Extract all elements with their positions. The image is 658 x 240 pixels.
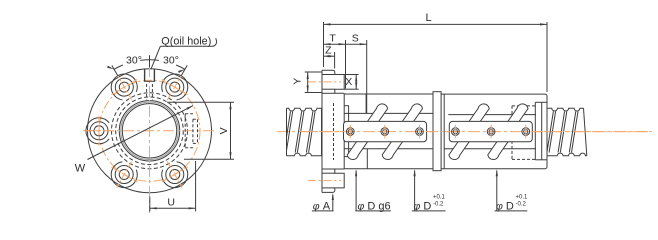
screw shaft thread left of nut bbox=[287, 108, 322, 156]
clamp screw screw 6 bbox=[522, 128, 530, 136]
svg-text:U: U bbox=[167, 196, 175, 208]
orange centerline over plates bbox=[300, 131, 652, 133]
clamp screw screw 5 bbox=[487, 128, 495, 136]
dimension L bbox=[323, 22, 325, 67]
dimension Z bbox=[334, 52, 336, 69]
svg-text:+0.1: +0.1 bbox=[433, 194, 446, 200]
ball return tube 3 (upper) bbox=[467, 104, 490, 125]
dimension V (vertical, right of flange) bbox=[167, 101, 234, 103]
dimension Y bbox=[305, 71, 322, 73]
front view: hidden circle (pilot boss) bbox=[112, 93, 188, 169]
nut body outline left half bbox=[344, 94, 433, 169]
svg-text:L: L bbox=[425, 12, 431, 24]
ball return tube 1 (upper) bbox=[365, 104, 388, 125]
front view: hidden circle (ball track) bbox=[116, 97, 184, 165]
ball return tube 2 (lower) bbox=[382, 138, 405, 160]
tube clamp plate right nut bbox=[449, 121, 532, 141]
clamp screw screw 2 bbox=[381, 128, 389, 136]
front view: flange outer circle bbox=[88, 69, 212, 193]
dimension U (bottom) bbox=[149, 197, 151, 212]
hidden wiper box right nut bbox=[512, 105, 535, 107]
svg-text:-0.2: -0.2 bbox=[516, 201, 527, 207]
ball return tube 2 (upper) bbox=[400, 104, 423, 125]
clamp screw screw 4 bbox=[452, 128, 460, 136]
clamp screw screw 1 bbox=[347, 128, 355, 136]
front view: bore circles (nut thread bore) bbox=[119, 101, 179, 161]
svg-text:-0.2: -0.2 bbox=[433, 201, 444, 207]
bolt hole at 180 deg bbox=[94, 126, 104, 136]
svg-text:Z: Z bbox=[325, 45, 332, 57]
bolt hole at 300 deg bbox=[170, 170, 180, 180]
ball return tube 4 (lower) bbox=[488, 138, 511, 160]
front view: orange centerlines bbox=[83, 130, 216, 132]
tube clamp plate left nut bbox=[344, 121, 427, 141]
oil hole hidden lines bbox=[146, 84, 148, 100]
bolt hole local centerlines (orange) bbox=[308, 81, 341, 83]
dimension X bbox=[344, 74, 358, 76]
dimension S bbox=[366, 40, 368, 113]
clamp screw screw 3 bbox=[416, 128, 424, 136]
svg-text:S: S bbox=[352, 32, 359, 44]
nut body outline right half bbox=[441, 94, 547, 169]
flange side view outline bbox=[322, 70, 344, 192]
svg-text:X: X bbox=[345, 76, 352, 88]
svg-text:T: T bbox=[329, 32, 336, 44]
svg-text:Y: Y bbox=[291, 78, 303, 85]
oil hole slot at flange top bbox=[144, 69, 146, 81]
ball return tube 1 (lower) bbox=[347, 138, 370, 160]
ball return tube 4 (upper) bbox=[505, 104, 528, 125]
dimension T bbox=[345, 40, 347, 89]
bolt hole at 120 deg bbox=[119, 82, 129, 92]
keyway hidden detail right of bore bbox=[184, 114, 186, 148]
front view: bolt circle centerline (orange) bbox=[99, 80, 200, 181]
30 deg extension lines bbox=[181, 65, 187, 75]
leader to oil slot bbox=[151, 46, 160, 69]
flange hidden line bbox=[333, 103, 335, 160]
middle band between nuts bbox=[433, 92, 441, 171]
side view main centerline (orange) bbox=[277, 131, 652, 133]
screw shaft thread right of nut bbox=[547, 108, 587, 156]
svg-text:W: W bbox=[75, 163, 86, 175]
ball return tube 3 (lower) bbox=[449, 138, 472, 160]
bolt hole at 240 deg bbox=[119, 170, 129, 180]
bolt hole at 60 deg bbox=[170, 82, 180, 92]
svg-text:30°: 30° bbox=[126, 55, 142, 67]
30 deg dimension arc with arrows bbox=[114, 65, 123, 69]
svg-text:+0.1: +0.1 bbox=[516, 194, 529, 200]
svg-text:V: V bbox=[218, 127, 230, 134]
